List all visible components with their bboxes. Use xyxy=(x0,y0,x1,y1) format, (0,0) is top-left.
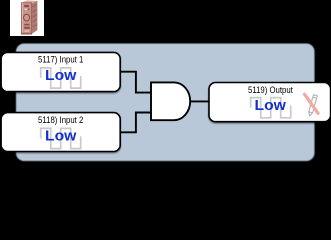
svg-text:5117) Input 1: 5117) Input 1 xyxy=(38,53,83,64)
square-wave icon O1 xyxy=(251,98,291,118)
AND gate U1 xyxy=(151,82,190,120)
wire from input 2 to AND gate xyxy=(120,113,151,133)
svg-text:5118) Input 2: 5118) Input 2 xyxy=(38,114,83,125)
3D module icon (palette thumbnail) xyxy=(21,0,37,34)
wire from input 1 to AND gate xyxy=(120,72,151,93)
front details xyxy=(24,5,29,7)
right side face xyxy=(32,1,38,34)
svg-text:Low: Low xyxy=(45,128,77,145)
input I1 box (5117) xyxy=(1,52,120,91)
component palette icon white tile xyxy=(10,0,44,36)
output O1 box (5119) xyxy=(209,83,331,122)
top face xyxy=(21,0,37,3)
svg-text:5119) Output: 5119) Output xyxy=(248,84,293,95)
wire from AND gate to output xyxy=(190,100,210,102)
square-wave icon I1 xyxy=(41,68,81,88)
front face xyxy=(21,3,31,34)
svg-text:Low: Low xyxy=(255,97,287,114)
circuit canvas panel xyxy=(16,44,315,162)
input I2 box (5118) xyxy=(1,113,120,152)
no-edit pencil icon xyxy=(305,94,319,116)
svg-text:Low: Low xyxy=(45,67,77,84)
square-wave icon I2 xyxy=(41,128,81,148)
